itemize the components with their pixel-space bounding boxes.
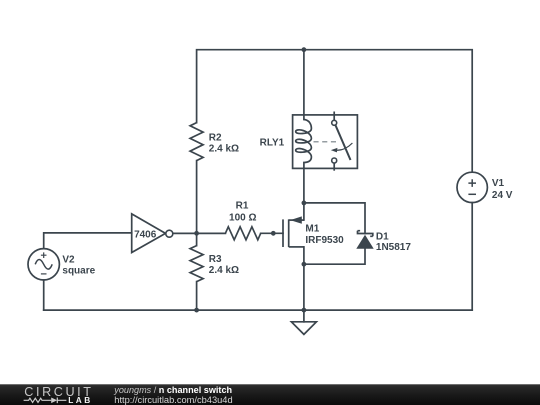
svg-text:square: square	[62, 266, 95, 277]
svg-text:RLY1: RLY1	[260, 138, 285, 149]
svg-text:2.4 kΩ: 2.4 kΩ	[209, 143, 239, 154]
svg-text:R3: R3	[209, 254, 222, 265]
svg-text:1N5817: 1N5817	[376, 242, 411, 253]
svg-text:2.4 kΩ: 2.4 kΩ	[209, 265, 239, 276]
svg-text:D1: D1	[376, 231, 389, 242]
svg-text:V1: V1	[492, 178, 505, 189]
svg-text:V2: V2	[62, 254, 75, 265]
svg-text:7406: 7406	[134, 229, 157, 240]
svg-text:100 Ω: 100 Ω	[229, 213, 256, 224]
svg-text:24 V: 24 V	[492, 190, 513, 201]
svg-text:LAB: LAB	[68, 395, 93, 405]
svg-text:IRF9530: IRF9530	[305, 235, 344, 246]
svg-text:R1: R1	[236, 200, 249, 211]
svg-text:M1: M1	[305, 224, 319, 235]
svg-text:http://circuitlab.com/cb43u4d: http://circuitlab.com/cb43u4d	[114, 395, 232, 405]
svg-text:youngms / n channel switch: youngms / n channel switch	[113, 385, 232, 395]
svg-text:R2: R2	[209, 133, 222, 144]
